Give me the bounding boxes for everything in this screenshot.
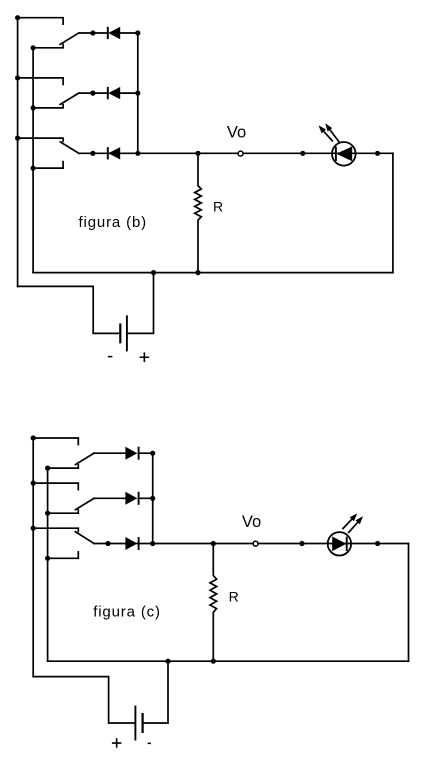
junction: D2 / diode bus (fig c)	[150, 496, 155, 501]
junction: bottom return / resistor R bottom (fig b)	[195, 270, 200, 275]
junction: rail1 / switch2 top contact (fig b)	[15, 75, 20, 80]
switch 3 (fig c)	[33, 528, 94, 558]
junction: rail1 / switch3 top contact (fig b)	[15, 136, 20, 141]
label battery plus (fig c)	[112, 738, 122, 748]
switch 2 (fig b)	[18, 78, 79, 108]
wire: switch2 pole to diode D2 (fig b)	[79, 92, 108, 94]
junction: rail2 / switch1 bottom contact (fig b)	[30, 45, 35, 50]
wire: battery positive lead (fig c)	[33, 677, 134, 723]
wire: bottom return (fig c)	[48, 660, 409, 662]
wire: rail 2 left bus (fig b)	[32, 48, 34, 273]
svg-text:R: R	[229, 589, 239, 605]
wire: right side down (fig b)	[392, 153, 394, 272]
wire: output line Vo (fig b)	[79, 152, 393, 154]
resistor R (fig b)	[195, 153, 202, 272]
junction: rail2 / switch1 bottom contact (fig c)	[45, 466, 50, 471]
svg-text:Vo: Vo	[227, 123, 246, 141]
wire: bottom return (fig b)	[33, 272, 393, 274]
junction: output line / resistor R top (fig b)	[195, 151, 200, 156]
wire: rail 2 left bus (fig c)	[47, 468, 49, 661]
label battery minus (fig b)	[108, 356, 113, 358]
junction: switch3 pole node (fig b)	[90, 151, 95, 156]
junction: D2 / diode bus (fig b)	[135, 91, 140, 96]
junction: rail2 / switch3 bottom contact (fig c)	[45, 556, 50, 561]
diode D3 (fig b)	[108, 147, 120, 159]
junction: bottom return / battery negative lead (fig c)	[165, 659, 170, 664]
svg-text:figura (b): figura (b)	[79, 214, 148, 231]
wire: switch1 pole to diode D1 (fig b)	[79, 32, 108, 34]
junction: switch3 pole node (fig c)	[105, 541, 110, 546]
junction: rail1 / switch3 top contact (fig c)	[31, 526, 36, 531]
junction: D1 / diode bus (fig c)	[150, 451, 155, 456]
junction: switch2 pole node (fig b)	[90, 91, 95, 96]
junction dot: output line right of LED (fig b)	[375, 151, 380, 156]
switch 3 (fig b)	[18, 138, 79, 168]
resistor R (fig c)	[210, 544, 217, 662]
switch 2 (fig c)	[33, 483, 94, 513]
wire: battery negative lead (fig b)	[18, 286, 120, 333]
diode D1 (fig c)	[125, 447, 152, 460]
junction: rail2 / switch2 bottom contact (fig b)	[30, 105, 35, 110]
svg-text:R: R	[213, 199, 223, 215]
wire: output line Vo (fig c)	[94, 543, 409, 545]
junction: rail1 / switch2 top contact (fig c)	[31, 481, 36, 486]
diode D2 (fig c)	[125, 492, 152, 505]
label battery minus (fig c)	[148, 742, 151, 744]
switch 1 (fig c)	[33, 438, 94, 468]
LED D4 (fig c)	[328, 513, 363, 555]
wire: battery negative lead (fig c)	[144, 661, 168, 723]
terminal Vo open circle (fig b)	[238, 151, 243, 156]
wire: diode anode bus (fig c)	[152, 453, 154, 543]
terminal Vo open circle (fig c)	[253, 541, 258, 546]
diode D3 (fig c)	[125, 537, 138, 550]
junction: output line / resistor R top (fig c)	[211, 541, 216, 546]
junction: D3 / diode bus / output line (fig c)	[150, 541, 155, 546]
junction: D3 / diode bus / output line (fig b)	[135, 151, 140, 156]
wire: diode cathode bus (fig b)	[137, 33, 139, 153]
junction: output line / LED left (fig c)	[299, 541, 304, 546]
wire: switch1 pole to diode D1 (fig c)	[94, 452, 125, 454]
junction: rail1 / switch1 top contact (fig c)	[31, 435, 36, 440]
battery V1 (fig c)	[135, 706, 142, 741]
junction: output line / LED left (fig b)	[300, 151, 305, 156]
junction: bottom return / battery positive lead (fig b)	[151, 270, 156, 275]
label battery plus (fig b)	[140, 352, 150, 362]
wire: rail 1 left bus (fig c)	[32, 438, 34, 677]
wire: battery positive lead (fig b)	[128, 273, 154, 334]
svg-text:Vo: Vo	[242, 513, 261, 531]
wire: right side down (fig c)	[408, 544, 410, 662]
junction: rail2 / switch2 bottom contact (fig c)	[45, 511, 50, 516]
LED D4 (fig b)	[319, 123, 356, 165]
junction dot: output line right of LED (fig c)	[375, 541, 380, 546]
diode D1 (fig b)	[108, 27, 138, 39]
junction: rail2 / switch3 bottom contact (fig b)	[30, 166, 35, 171]
junction: switch1 pole node (fig b)	[90, 30, 95, 35]
junction: bottom return / resistor R bottom (fig c)	[211, 659, 216, 664]
junction: D1 / diode bus (fig b)	[135, 30, 140, 35]
wire: switch2 pole to diode D2 (fig c)	[94, 497, 125, 499]
diode D2 (fig b)	[108, 87, 138, 99]
svg-text:figura (c): figura (c)	[93, 604, 161, 621]
wire: rail 1 left bus (fig b)	[17, 18, 19, 287]
battery V1 (fig b)	[120, 315, 127, 351]
switch 1 (fig b)	[18, 18, 79, 48]
junction: rail1 / switch1 top contact (fig b)	[15, 15, 20, 20]
